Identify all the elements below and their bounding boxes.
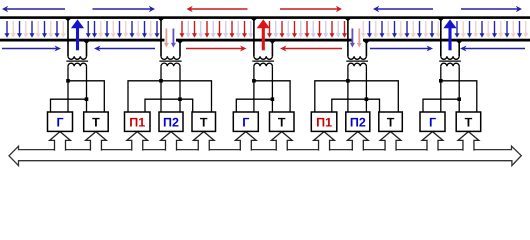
wire: lower bus substation 1: [51, 99, 87, 112]
junction node lower bus substation 5: [457, 97, 461, 101]
load box P2 (П2): [159, 112, 183, 131]
junction node on contact wire at substation 2: [158, 18, 164, 21]
distributed load current arrows (field between conductors): [5, 21, 529, 38]
feeder current arrow toward substation 5 (left side): [370, 46, 433, 52]
feeder current arrow toward substation 1 (left side): [2, 46, 61, 52]
wire: T3 secondary right lead down: [271, 66, 273, 112]
feeder wire segment 2: [176, 39, 352, 42]
transformer T1 core: [66, 60, 88, 62]
junction node lower bus substation 2: [178, 97, 182, 101]
transformer T3 primary winding: [254, 56, 272, 59]
load box T (Т): [192, 112, 216, 131]
junction node on feeder wire at substation 1: [83, 41, 89, 44]
junction node lower bus substation 4: [365, 97, 369, 101]
contact wire (top conductor): [0, 16, 530, 19]
wire: upper bus substation 2: [128, 81, 212, 113]
load box T (Т): [270, 112, 295, 131]
junction node lower bus substation 3: [271, 97, 275, 101]
wire: upper bus substation 1: [68, 81, 104, 113]
transformer T1 secondary winding: [68, 63, 86, 66]
current arrow between substations 1-2 (to right): [93, 6, 156, 13]
junction node on contact wire at substation 1: [65, 18, 71, 21]
wire: lower bus substation 2: [145, 99, 193, 112]
wire: T3 secondary left lead down: [253, 66, 255, 112]
junction node upper bus substation 5: [439, 79, 443, 83]
load box G (Г): [48, 112, 73, 131]
feeder wire segment 3: [363, 39, 530, 42]
wire: feeder wire to transformer T5 primary (right lead): [458, 40, 460, 56]
svg-text:П2: П2: [350, 116, 366, 130]
gap current arrows at substation 4: [350, 29, 362, 48]
wire: feeder wire to transformer T4 primary (right lead): [365, 40, 367, 56]
return arrow from rail to load G at x=246: [235, 132, 256, 151]
transformer T2 primary winding: [161, 56, 180, 59]
return arrow from rail to load P2 at x=358: [347, 132, 368, 151]
junction node on feeder wire at substation 3: [269, 41, 275, 44]
wire: upper bus substation 4: [315, 81, 399, 113]
feeder current arrow toward substation 5 (right side): [460, 46, 525, 52]
wire: T1 secondary right lead down: [86, 66, 88, 112]
junction node on feeder wire at substation 2: [177, 41, 183, 44]
transformer T1 primary winding: [68, 56, 86, 59]
wire: lower bus substation 3: [236, 99, 272, 112]
transformer T5 primary winding: [441, 56, 459, 59]
svg-text:П1: П1: [316, 116, 332, 130]
junction node upper bus substation 2: [159, 79, 163, 83]
return arrow from rail to load P1 at x=137: [127, 132, 148, 151]
return arrow from rail to load P2 at x=171: [161, 132, 182, 151]
load box P1 (П1): [311, 112, 337, 131]
return arrow from rail to load G at x=432: [422, 132, 443, 151]
load box G (Г): [233, 112, 258, 131]
wire: contact wire to transformer T5 primary (left lead): [440, 18, 442, 56]
svg-text:Т: Т: [92, 116, 100, 130]
wire: T5 secondary right lead down: [458, 66, 460, 112]
booster arrow substation 5 (blue, up): [443, 19, 456, 50]
wire: feeder wire to transformer T1 primary (right lead): [86, 40, 88, 56]
load box G (Г): [420, 112, 445, 131]
transformer T2 secondary winding: [161, 63, 180, 66]
wire: contact wire to transformer T1 primary (left lead): [67, 18, 69, 56]
transformer T4 secondary winding: [348, 63, 366, 66]
junction node upper bus substation 3: [252, 79, 256, 83]
gap current arrows at substation 2: [164, 29, 176, 48]
wire: upper bus substation 5: [441, 81, 477, 113]
return arrow from rail to load T at x=204: [193, 132, 214, 151]
wire: T5 secondary left lead down: [440, 66, 442, 112]
wire: T2 secondary left lead down: [160, 66, 162, 112]
return arrow from rail to load P1 at x=324: [314, 132, 335, 151]
svg-text:Т: Т: [200, 116, 208, 130]
return arrow from rail to load T at x=391: [380, 132, 401, 151]
load box P1 (П1): [125, 112, 151, 131]
feeder wire (second conductor) segment 1: [0, 39, 165, 42]
junction node on contact wire at substation 4: [345, 18, 351, 21]
wire: feeder wire to transformer T3 primary (right lead): [271, 40, 273, 56]
svg-text:Т: Т: [387, 116, 395, 130]
transformer T2 core: [159, 60, 181, 62]
transformer T5 core: [439, 60, 461, 62]
svg-text:Г: Г: [56, 116, 63, 130]
load box T (Т): [456, 112, 481, 131]
current arrow right of substation 5 (to right): [461, 6, 522, 13]
current arrow between substations 4-5 (to left): [373, 6, 433, 13]
rail line (double-headed arrow): [9, 146, 521, 165]
load box P2 (П2): [346, 112, 370, 131]
svg-text:Т: Т: [465, 116, 473, 130]
transformer T4 core: [346, 60, 368, 62]
wire: contact wire to transformer T4 primary (left lead): [347, 18, 349, 56]
booster arrow substation 3 (red, up): [257, 19, 270, 50]
load box T (Т): [84, 112, 109, 131]
return arrow from rail to load T at x=468: [458, 132, 479, 151]
svg-text:Г: Г: [429, 116, 436, 130]
junction node on contact wire at substation 5: [438, 18, 444, 21]
wire: feeder wire to transformer T2 primary (right lead): [179, 40, 181, 56]
load box T (Т): [379, 112, 403, 131]
svg-text:П1: П1: [129, 116, 145, 130]
junction node on feeder wire at substation 5: [456, 41, 462, 44]
return arrow from rail to load T at x=282: [271, 132, 292, 151]
booster arrow substation 1 (blue, up): [71, 19, 84, 50]
junction node upper bus substation 1: [66, 79, 70, 83]
transformer T5 secondary winding: [441, 63, 459, 66]
wire: T1 secondary left lead down: [67, 66, 69, 112]
feeder current arrow toward substation 3 (right side): [280, 46, 342, 52]
junction node on feeder wire at substation 4: [363, 41, 369, 44]
svg-text:Г: Г: [242, 116, 249, 130]
svg-text:П2: П2: [163, 116, 179, 130]
wire: lower bus substation 4: [332, 99, 380, 112]
transformer T3 secondary winding: [254, 63, 272, 66]
wire: T4 secondary right lead down: [365, 66, 367, 112]
current arrow between substations 3-4 (to right): [280, 6, 342, 13]
feeder current arrow toward substation 1 (right side): [94, 46, 155, 52]
transformer T4 primary winding: [348, 56, 366, 59]
svg-text:Т: Т: [278, 116, 286, 130]
return arrow from rail to load T at x=96: [86, 132, 107, 151]
return arrow from rail to load G at x=60: [50, 132, 71, 151]
feeder current arrow toward substation 3 (left side): [186, 46, 247, 52]
wire: lower bus substation 5: [423, 99, 459, 112]
wire: contact wire to transformer T3 primary (left lead): [253, 18, 255, 56]
current arrow left of substation 1 (to left): [2, 6, 65, 13]
wire: T4 secondary left lead down: [347, 66, 349, 112]
junction node on contact wire at substation 3: [251, 18, 257, 21]
wire: upper bus substation 3: [254, 81, 290, 113]
wire: T2 secondary right lead down: [179, 66, 181, 112]
wire: contact wire to transformer T2 primary (left lead): [160, 18, 162, 56]
current arrow between substations 2-3 (to left): [187, 6, 248, 13]
junction node upper bus substation 4: [346, 79, 350, 83]
junction node lower bus substation 1: [85, 97, 89, 101]
transformer T3 core: [252, 60, 274, 62]
